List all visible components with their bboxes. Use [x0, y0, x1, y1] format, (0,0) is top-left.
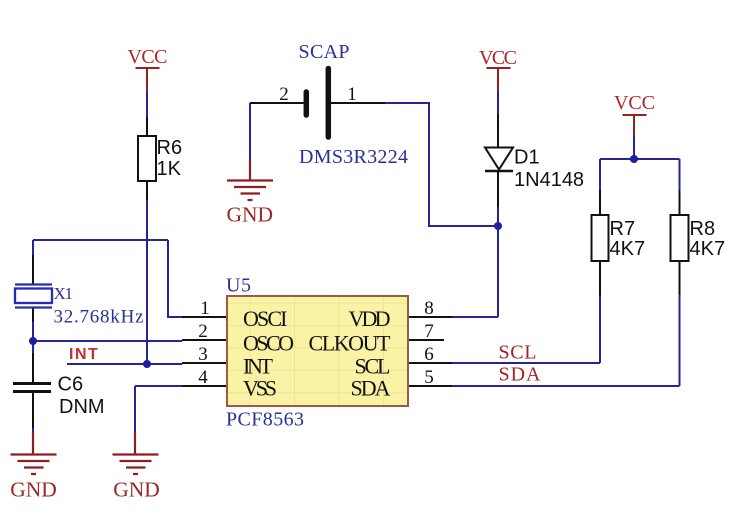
svg-text:1: 1 [200, 298, 210, 319]
svg-text:R7: R7 [610, 218, 636, 240]
svg-text:GND: GND [113, 478, 160, 502]
svg-text:X1: X1 [54, 284, 74, 303]
svg-text:4K7: 4K7 [610, 238, 646, 260]
svg-text:1K: 1K [157, 158, 182, 180]
svg-text:1: 1 [347, 84, 357, 105]
svg-text:VSS: VSS [243, 376, 277, 401]
svg-text:VCC: VCC [479, 47, 517, 69]
svg-text:U5: U5 [226, 275, 251, 297]
svg-text:SDA: SDA [351, 376, 391, 401]
svg-text:6: 6 [424, 344, 434, 365]
svg-text:5: 5 [424, 367, 434, 388]
svg-text:2: 2 [279, 84, 289, 105]
svg-text:D1: D1 [514, 147, 540, 169]
svg-text:PCF8563: PCF8563 [226, 409, 304, 431]
svg-text:SDA: SDA [499, 364, 542, 386]
svg-text:4: 4 [198, 367, 208, 388]
svg-text:VCC: VCC [128, 46, 168, 68]
svg-text:3: 3 [198, 344, 208, 365]
svg-text:C6: C6 [58, 374, 84, 396]
svg-text:4K7: 4K7 [690, 238, 726, 260]
svg-text:DMS3R3224: DMS3R3224 [299, 146, 408, 168]
svg-text:GND: GND [227, 203, 274, 227]
svg-text:7: 7 [424, 321, 434, 342]
svg-text:OSCO: OSCO [243, 331, 294, 356]
svg-text:VCC: VCC [614, 92, 655, 114]
svg-text:1N4148: 1N4148 [514, 169, 584, 191]
svg-text:SCL: SCL [499, 342, 537, 364]
svg-text:OSCI: OSCI [243, 306, 288, 331]
svg-text:8: 8 [424, 298, 434, 319]
svg-text:R6: R6 [157, 137, 183, 159]
svg-text:SCAP: SCAP [299, 41, 350, 63]
svg-text:2: 2 [198, 321, 208, 342]
svg-text:INT: INT [69, 346, 99, 363]
svg-text:R8: R8 [690, 218, 716, 240]
svg-text:32.768kHz: 32.768kHz [54, 307, 144, 328]
svg-text:DNM: DNM [59, 396, 105, 418]
svg-text:GND: GND [10, 478, 57, 502]
svg-text:CLKOUT: CLKOUT [309, 331, 392, 356]
svg-text:VDD: VDD [349, 306, 391, 331]
